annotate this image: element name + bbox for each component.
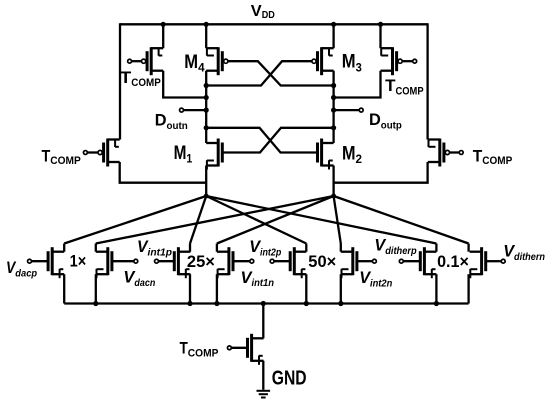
wire Vdacn gate lead — [112, 260, 134, 262]
transistor M1 NMOS — [206, 139, 222, 167]
wire fan p-drain 1 to left node — [64, 196, 206, 244]
ground symbol — [257, 391, 271, 398]
junction on source rail — [93, 301, 98, 306]
wire tail drain up to source rail — [262, 304, 264, 339]
wire top-left T_COMP gate terminal — [132, 60, 142, 62]
wire top-left T_COMP source to VDD — [162, 24, 164, 48]
wire Vint1n gate lead — [233, 260, 250, 262]
svg-text:outn: outn — [167, 120, 188, 132]
transistor T_COMP top-left PMOS — [142, 47, 164, 75]
wire top-right T_COMP drain to Doutp node — [334, 71, 381, 98]
wire Vdacp gate lead — [31, 260, 48, 262]
wire M3 drain to Doutp — [332, 71, 334, 86]
wire Vditherp source down to rail — [435, 274, 437, 303]
svg-text:2: 2 — [356, 152, 363, 166]
wire Doutn terminal stub — [183, 109, 206, 111]
junction Doutn terminal — [204, 108, 209, 113]
wire mid-left T_COMP drain to M1 source node — [120, 162, 207, 183]
svg-text:outp: outp — [381, 119, 402, 131]
wire top-right T_COMP source to VDD — [379, 24, 381, 48]
terminal Vdacp — [28, 259, 32, 263]
transistor T_COMP mid-right PMOS — [428, 139, 450, 167]
terminal Vint1p — [155, 259, 159, 263]
wire Vint2p source down to rail — [305, 274, 307, 303]
svg-text:COMP: COMP — [396, 86, 424, 98]
wire fan p-drain 2 to left node — [190, 196, 206, 244]
svg-text:T: T — [120, 68, 132, 87]
svg-text:GND: GND — [272, 367, 307, 389]
svg-text:COMP: COMP — [482, 155, 512, 167]
wire right rail from VDD — [426, 23, 428, 139]
svg-text:M: M — [184, 52, 198, 73]
junction Doutp upper — [331, 83, 336, 88]
svg-text:COMP: COMP — [50, 155, 81, 167]
junction on VDD rail right — [378, 22, 383, 27]
wire Vditherp gate lead — [403, 260, 420, 262]
terminal T_COMP top-right — [413, 59, 417, 63]
wire M3 gate to Doutn cross-coupled — [206, 61, 312, 85]
junction on source rail — [304, 301, 309, 306]
svg-text:int2n: int2n — [370, 277, 392, 289]
wire Vint1n source down to rail — [216, 274, 218, 303]
wire Doutp node column — [332, 86, 334, 144]
wire Vdacp source down to rail — [63, 274, 65, 303]
wire mid-right T_COMP source stub — [426, 139, 428, 140]
svg-text:3: 3 — [356, 60, 362, 74]
input pair transistor Vint2n — [341, 247, 357, 275]
wire Doutp to M1 gate cross-coupled — [222, 128, 333, 153]
wire M1 source down to left tail node — [205, 166, 207, 197]
wire tail gate terminal — [231, 347, 247, 349]
node left common drain point — [204, 194, 209, 199]
junction M3 source on VDD rail — [331, 22, 336, 27]
terminal Vint2n — [372, 259, 376, 263]
input pair transistor Vdacn — [96, 247, 112, 275]
wire Vdithern source down to rail — [467, 274, 469, 303]
terminal Vditherp — [399, 259, 403, 263]
svg-text:D: D — [369, 111, 381, 129]
svg-text:COMP: COMP — [188, 347, 219, 359]
wire Vint1p gate lead — [158, 260, 174, 262]
wire fan n-drain 1 to right node — [96, 196, 334, 244]
junction Doutn at reset drain — [204, 95, 209, 100]
wire left rail from VDD — [119, 23, 121, 139]
terminal Doutp — [359, 108, 363, 112]
node right common drain point — [331, 194, 336, 199]
terminal Doutn — [180, 108, 184, 112]
junction Doutn lower — [204, 125, 209, 130]
wire common source rail — [64, 302, 468, 304]
wire Vint1n drain up to fan — [216, 244, 218, 252]
input pair transistor Vdacp — [48, 247, 64, 275]
wire top-right T_COMP gate terminal — [402, 60, 413, 62]
wire M4 gate to Doutp cross-coupled — [228, 61, 334, 85]
wire mid-right T_COMP gate terminal — [450, 151, 460, 153]
wire Vint2n gate lead — [357, 260, 373, 262]
svg-text:DD: DD — [262, 9, 275, 21]
input pair transistor Vdithern — [470, 247, 486, 275]
wire Vdacn source down to rail — [95, 274, 97, 303]
svg-text:M: M — [174, 143, 187, 164]
svg-text:COMP: COMP — [131, 77, 161, 89]
transistor T_COMP mid-left PMOS — [98, 139, 120, 167]
svg-text:M: M — [342, 144, 356, 165]
terminal Vdacn — [134, 259, 138, 263]
svg-text:dacn: dacn — [134, 277, 155, 289]
wire M2 source down to right tail node — [332, 166, 334, 197]
transistor T_COMP tail NMOS — [248, 334, 264, 362]
svg-text:4: 4 — [198, 61, 205, 75]
wire Doutn to M2 gate cross-coupled — [206, 128, 317, 153]
svg-text:1×: 1× — [70, 253, 87, 271]
terminal Vint1n — [250, 259, 254, 263]
junction Doutp at reset drain — [331, 95, 336, 100]
svg-text:ditherp: ditherp — [385, 245, 417, 257]
junction Doutp lower — [331, 125, 336, 130]
junction on source rail — [261, 301, 266, 306]
svg-text:0.1×: 0.1× — [437, 253, 469, 271]
junction on source rail — [434, 301, 439, 306]
wire Vint2n drain up to fan — [340, 244, 342, 252]
wire Vdacp drain up to fan — [63, 244, 65, 252]
wire Vditherp drain up to fan — [435, 244, 437, 252]
wire M4 source to VDD — [205, 24, 207, 48]
wire Vdithern gate lead — [486, 260, 502, 262]
junction on source rail — [338, 301, 343, 306]
svg-text:dithern: dithern — [514, 251, 545, 263]
wire fan p-drain 4 to left node — [206, 196, 436, 244]
svg-text:dacp: dacp — [15, 267, 37, 279]
wire mid-right T_COMP drain to M2 source node — [334, 162, 428, 183]
terminal T_COMP top-left — [128, 59, 132, 63]
wire M3 source to VDD — [332, 24, 334, 48]
junction on source rail — [214, 301, 219, 306]
wire Vint1p source down to rail — [189, 274, 191, 303]
svg-text:int1p: int1p — [148, 246, 173, 258]
transistor T_COMP top-right PMOS — [381, 47, 403, 75]
terminal T_COMP tail — [227, 346, 231, 350]
wire Vint2p gate lead — [274, 260, 290, 262]
junction on source rail — [187, 301, 192, 306]
svg-text:25×: 25× — [187, 253, 215, 271]
transistor M3 PMOS — [312, 47, 334, 75]
wire mid-left T_COMP source stub — [119, 139, 121, 140]
transistor M2 NMOS — [318, 139, 334, 167]
input pair transistor Vint1p — [174, 247, 190, 275]
svg-text:50×: 50× — [308, 253, 336, 271]
wire Doutn node column — [205, 86, 207, 144]
svg-text:T: T — [385, 76, 396, 95]
wire Vdithern drain up to fan — [467, 244, 469, 252]
input pair transistor Vint2p — [290, 247, 306, 275]
wire Vdacn drain up to fan — [95, 244, 97, 252]
wire mid-left T_COMP gate terminal — [87, 151, 98, 153]
terminal Vint2p — [270, 259, 274, 263]
wire M4 drain to Doutn — [205, 71, 207, 86]
junction on VDD rail — [161, 22, 166, 27]
junction Doutn upper — [204, 83, 209, 88]
svg-text:int2p: int2p — [260, 246, 282, 258]
wire Vint2n source down to rail — [340, 274, 342, 303]
wire tail source to ground — [262, 361, 264, 390]
svg-text:1: 1 — [186, 152, 192, 166]
wire fan p-drain 3 to left node — [206, 196, 306, 244]
transistor M4 PMOS — [206, 47, 228, 75]
wire Vint2p drain up to fan — [305, 244, 307, 252]
junction M4 source on VDD rail — [204, 22, 209, 27]
input pair transistor Vditherp — [420, 247, 436, 275]
svg-text:M: M — [342, 52, 356, 73]
junction Doutp terminal — [331, 108, 336, 113]
wire fan n-drain 3 to right node — [334, 196, 341, 244]
wire fan n-drain 2 to right node — [217, 196, 334, 244]
terminal Vdithern — [501, 259, 505, 263]
terminal T_COMP mid-right — [459, 151, 463, 155]
wire Vint1p drain up to fan — [189, 244, 191, 252]
svg-text:D: D — [155, 112, 167, 130]
svg-text:int1n: int1n — [252, 277, 275, 289]
svg-text:V: V — [251, 3, 262, 20]
wire top-left T_COMP drain to Doutn node — [163, 71, 206, 98]
terminal T_COMP mid-left — [83, 151, 87, 155]
wire Doutp terminal stub — [334, 109, 360, 111]
power rail VDD wire — [120, 23, 428, 25]
input pair transistor Vint1n — [217, 247, 233, 275]
wire fan n-drain 4 to right node — [334, 196, 469, 244]
